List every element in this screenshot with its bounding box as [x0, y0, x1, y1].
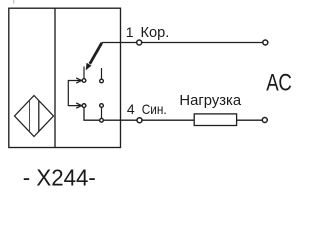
- svg-text:- X244-: - X244-: [23, 165, 96, 191]
- svg-text:АС: АС: [266, 70, 292, 97]
- svg-text:1: 1: [126, 24, 134, 40]
- svg-text:Нагрузка: Нагрузка: [179, 93, 242, 109]
- svg-text:4: 4: [127, 101, 135, 117]
- svg-text:Кор.: Кор.: [141, 25, 170, 41]
- svg-text:Син.: Син.: [142, 101, 167, 117]
